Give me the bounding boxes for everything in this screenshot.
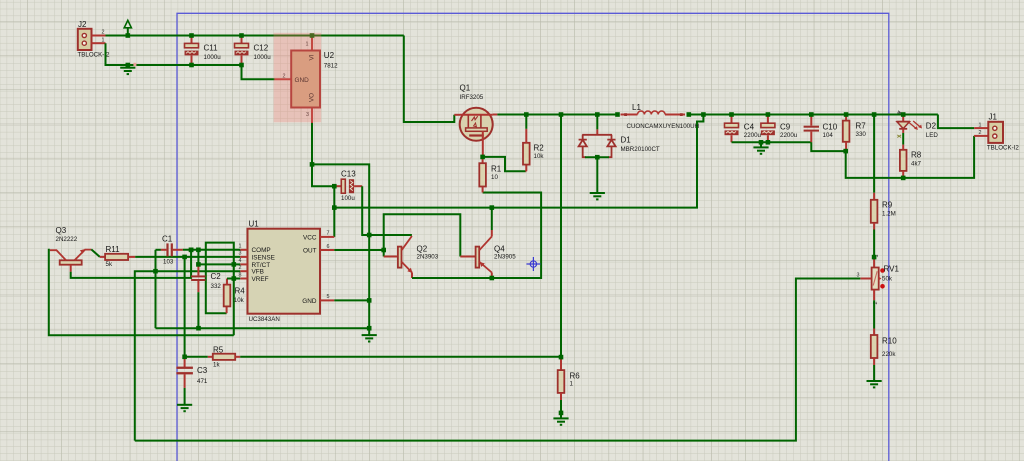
svg-text:L1: L1 — [632, 103, 641, 112]
svg-text:104: 104 — [823, 132, 834, 139]
pin U1.7 — [320, 236, 334, 238]
wire Q3 base to COMP — [71, 250, 191, 278]
svg-text:7: 7 — [327, 231, 330, 237]
svg-text:GND: GND — [302, 298, 317, 305]
svg-text:C3: C3 — [197, 366, 208, 375]
pin J1.2 — [974, 135, 988, 137]
svg-text:MBR20100CT: MBR20100CT — [621, 146, 660, 153]
capacitor C4 — [731, 115, 733, 124]
svg-text:C11: C11 — [204, 44, 219, 53]
svg-text:R9: R9 — [882, 201, 893, 210]
svg-text:VFB: VFB — [252, 269, 264, 276]
pin U1.6 — [320, 249, 334, 251]
svg-text:IRF3205: IRF3205 — [460, 94, 484, 101]
svg-text:C13: C13 — [341, 170, 356, 179]
op-amp U1 UC3843AN — [248, 229, 321, 314]
capacitor C3 — [184, 357, 186, 367]
svg-text:1: 1 — [570, 381, 574, 388]
svg-text:4k7: 4k7 — [911, 161, 922, 168]
svg-text:LED: LED — [926, 132, 939, 139]
ground — [560, 413, 562, 419]
ground — [368, 328, 370, 335]
pin J1.1 — [974, 127, 988, 129]
junctions — [126, 33, 131, 38]
wire VCC vertical — [333, 186, 335, 237]
svg-text:1: 1 — [239, 244, 242, 250]
connector J2 — [78, 29, 92, 50]
svg-text:2200u: 2200u — [744, 132, 762, 139]
svg-text:ISENSE: ISENSE — [252, 254, 275, 261]
wire wiper feedback — [860, 278, 871, 280]
svg-text:1.2M: 1.2M — [882, 210, 896, 217]
svg-text:TBLOCK-I2: TBLOCK-I2 — [987, 144, 1020, 151]
wire VREF stub — [234, 278, 240, 280]
svg-text:3: 3 — [239, 251, 242, 257]
svg-text:J1: J1 — [989, 113, 998, 122]
svg-text:10k: 10k — [534, 153, 545, 160]
wire ISENSE down to R5 — [184, 257, 186, 357]
svg-text:CUONCAMXUYEN100UH: CUONCAMXUYEN100UH — [627, 123, 700, 130]
wire Q1 source — [482, 141, 484, 157]
resistor R6 — [560, 357, 562, 370]
wire RT/CT line — [198, 250, 240, 265]
wire OUT line — [334, 249, 383, 251]
selection highlight — [274, 33, 322, 123]
wire D1 to ground — [596, 157, 598, 193]
svg-text:RV1: RV1 — [884, 265, 900, 274]
wire top rail to Q1 gate — [404, 36, 455, 123]
wire drain sense vertical — [560, 115, 562, 358]
wire ISENSE line — [135, 256, 240, 258]
svg-text:2: 2 — [239, 265, 242, 271]
svg-text:J2: J2 — [78, 20, 87, 29]
svg-text:VCC: VCC — [303, 234, 317, 241]
svg-text:6: 6 — [327, 244, 330, 250]
svg-text:471: 471 — [197, 378, 208, 385]
svg-text:10: 10 — [491, 174, 498, 181]
pin U1.2 — [240, 270, 247, 272]
wire to J1.1 — [938, 115, 974, 129]
svg-text:C10: C10 — [823, 123, 838, 132]
svg-text:U2: U2 — [324, 51, 335, 60]
svg-text:C1: C1 — [162, 235, 173, 244]
ground — [867, 381, 882, 387]
svg-text:220k: 220k — [882, 351, 896, 358]
svg-text:R7: R7 — [856, 122, 867, 131]
wire C10 bottom to R7 — [811, 142, 845, 151]
svg-text:7812: 7812 — [324, 63, 338, 70]
wire +12V input top rail — [106, 35, 404, 37]
svg-text:2N2222: 2N2222 — [56, 236, 78, 243]
svg-text:C12: C12 — [254, 44, 269, 53]
svg-text:2N3903: 2N3903 — [417, 253, 439, 260]
ground — [760, 142, 762, 147]
wire C13 neg to Q2 collector rail — [362, 186, 412, 235]
diode D1 MBR20100CT — [596, 115, 598, 130]
wire to U2 GND pin — [242, 65, 275, 79]
resistor R11 — [100, 256, 105, 258]
resistor R7 — [845, 115, 847, 121]
power flag — [124, 20, 131, 28]
wire Q3 collector to VREF rail — [49, 250, 234, 335]
svg-text:C4: C4 — [744, 123, 755, 132]
wire output rail — [689, 114, 938, 116]
wire emitters to gate drive — [412, 193, 541, 279]
potentiometer RV1 — [873, 257, 875, 267]
pin U1.3 — [240, 256, 247, 258]
svg-text:UC3843AN: UC3843AN — [249, 316, 280, 323]
wire C2 to gnd rail — [197, 292, 199, 328]
svg-text:2N3905: 2N3905 — [494, 253, 516, 260]
sheet border — [177, 13, 889, 461]
svg-text:2200u: 2200u — [780, 132, 798, 139]
svg-text:VREF: VREF — [252, 276, 269, 283]
pin U1.4 — [240, 263, 247, 265]
connector J1 — [988, 122, 1003, 143]
wire cap bottoms — [732, 141, 812, 143]
wire VFB line to feedback — [135, 271, 240, 440]
svg-text:COMP: COMP — [252, 247, 271, 254]
wire U2 VO down — [312, 123, 334, 186]
svg-text:R10: R10 — [882, 337, 897, 346]
svg-text:1k: 1k — [213, 361, 220, 368]
diode D2 LED — [902, 115, 904, 122]
capacitor C2 — [197, 264, 199, 275]
transistor Q2 2N3903 — [383, 250, 385, 257]
wire J2.1 to input gnd — [106, 43, 242, 65]
svg-text:Q1: Q1 — [460, 84, 471, 93]
capacitor C12 — [241, 36, 243, 44]
svg-text:R2: R2 — [534, 144, 545, 153]
wire OUT to Q4 base — [384, 214, 461, 256]
resistor R9 — [873, 115, 875, 193]
pin U1.5 — [320, 299, 334, 301]
pin J2.1 — [92, 42, 106, 44]
wire R5 to sense node — [240, 356, 561, 358]
wire Q3 emitter to R11 — [91, 249, 100, 257]
svg-text:R8: R8 — [911, 151, 922, 160]
wire VO to driver rail — [312, 164, 369, 328]
resistor R10 — [873, 300, 875, 328]
ground — [127, 65, 129, 68]
pin U1.1 — [240, 249, 247, 251]
svg-text:Q2: Q2 — [417, 245, 428, 254]
transistor Q1 IRF3205 — [460, 108, 493, 141]
svg-text:10k: 10k — [234, 297, 245, 304]
svg-text:R6: R6 — [570, 372, 581, 381]
svg-text:5: 5 — [327, 294, 330, 300]
wire Q1 drain node — [493, 114, 498, 116]
svg-text:8: 8 — [239, 272, 242, 278]
svg-text:1000u: 1000u — [204, 54, 222, 61]
svg-text:1: 1 — [979, 122, 982, 128]
capacitor C9 — [767, 115, 769, 124]
resistor R4 — [226, 306, 228, 313]
transistor Q3 2N2222 — [60, 260, 82, 264]
svg-text:103: 103 — [163, 259, 174, 266]
transistor Q4 2N3905 — [460, 256, 475, 258]
svg-text:OUT: OUT — [303, 247, 317, 254]
svg-text:Q4: Q4 — [494, 245, 505, 254]
ground — [177, 405, 192, 411]
pin U1.8 — [240, 278, 247, 280]
svg-text:Q3: Q3 — [56, 226, 67, 235]
pin J2.2 — [92, 35, 106, 37]
wire COMP line — [183, 249, 240, 251]
regulator U2 7812 — [275, 78, 292, 80]
wire VCC to output node — [334, 115, 703, 208]
svg-text:332: 332 — [211, 283, 222, 290]
wire return line — [846, 136, 974, 178]
svg-text:50k: 50k — [882, 276, 893, 283]
svg-text:D2: D2 — [926, 122, 937, 131]
svg-text:5k: 5k — [106, 261, 113, 268]
svg-text:C9: C9 — [780, 123, 791, 132]
svg-text:4: 4 — [239, 258, 242, 264]
svg-text:U1: U1 — [249, 220, 260, 229]
svg-text:R5: R5 — [213, 345, 224, 354]
svg-text:R11: R11 — [106, 245, 121, 254]
svg-text:330: 330 — [856, 131, 867, 138]
wire U1 GND to driver rail — [334, 299, 369, 301]
ground — [590, 193, 605, 199]
capacitor C11 — [191, 36, 193, 44]
inductor L1 — [621, 114, 638, 116]
resistor R2 — [483, 157, 526, 171]
svg-text:D1: D1 — [621, 136, 632, 145]
wire VREF net riser — [206, 243, 234, 336]
svg-text:1000u: 1000u — [254, 54, 272, 61]
wire comp riser to gnd rail — [155, 250, 157, 328]
svg-text:R1: R1 — [491, 165, 502, 174]
capacitor C13 — [334, 185, 341, 187]
resistor R8 — [902, 145, 904, 150]
origin marker — [526, 257, 540, 271]
svg-text:R4: R4 — [235, 287, 246, 296]
wire gnd rail under U1 — [156, 327, 370, 329]
resistor R1 — [482, 157, 484, 163]
svg-text:100u: 100u — [341, 195, 355, 202]
capacitor C1 — [156, 249, 161, 251]
svg-text:C2: C2 — [211, 272, 222, 281]
capacitor C10 — [810, 115, 812, 126]
resistor R5 — [185, 356, 208, 358]
svg-text:2: 2 — [979, 130, 982, 136]
